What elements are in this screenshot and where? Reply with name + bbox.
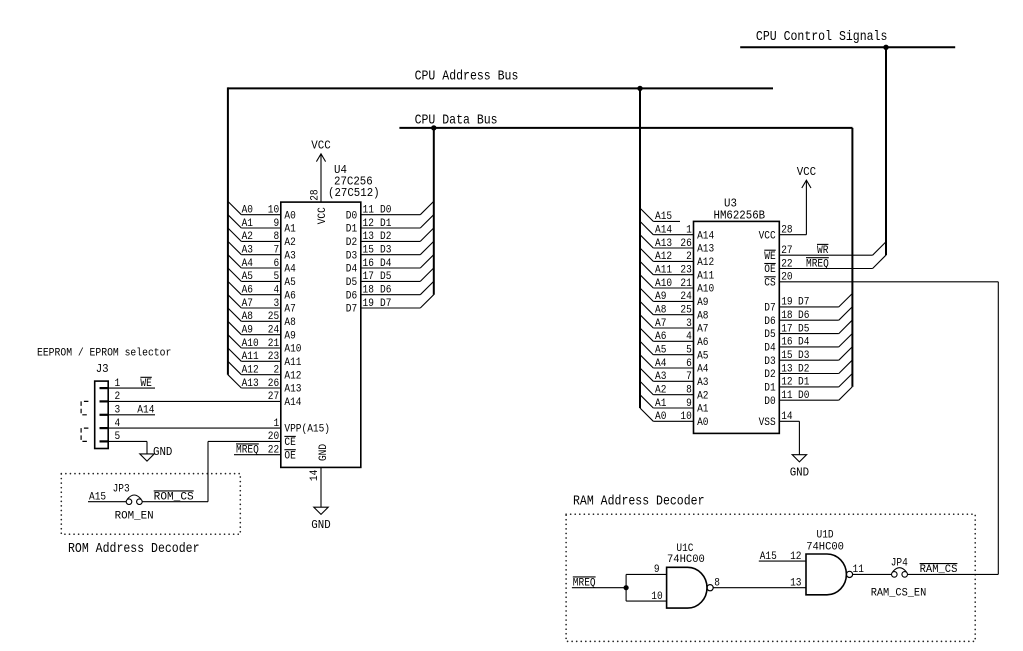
svg-text:VCC: VCC	[759, 230, 776, 242]
svg-text:3: 3	[274, 298, 280, 310]
svg-text:12: 12	[790, 551, 801, 563]
svg-text:A6: A6	[655, 331, 666, 343]
svg-text:A13: A13	[242, 378, 259, 390]
svg-text:D1: D1	[380, 218, 391, 230]
svg-text:22: 22	[268, 445, 279, 457]
wire U3 pin 3 (A7) with bus entry	[640, 315, 709, 336]
wire U3 pin 12 (D1) with bus entry	[764, 374, 852, 395]
wire U4 pin 27 (A14) from J3 pin 2	[108, 391, 301, 409]
svg-text:A7: A7	[655, 318, 666, 330]
svg-text:7: 7	[686, 371, 692, 383]
wire U4 pin 6 (A4) with bus entry	[228, 255, 296, 276]
svg-text:(27C512): (27C512)	[328, 186, 380, 200]
svg-text:74HC00: 74HC00	[806, 542, 844, 554]
svg-text:26: 26	[680, 238, 691, 250]
svg-text:A9: A9	[655, 291, 666, 303]
svg-text:27: 27	[268, 391, 279, 403]
wire U3 pin 26 (A13) with bus entry	[640, 235, 714, 256]
svg-text:A12: A12	[655, 251, 672, 263]
wire U4 pin 3 (A7) with bus entry	[228, 295, 296, 316]
svg-text:J3: J3	[96, 362, 109, 376]
svg-text:A6: A6	[697, 337, 708, 349]
svg-text:A11: A11	[655, 265, 672, 277]
svg-text:4: 4	[115, 418, 121, 430]
svg-text:8: 8	[686, 385, 692, 397]
svg-text:JP3: JP3	[113, 484, 130, 496]
wire J3 pin 1 WE stub	[108, 377, 155, 390]
wire U1C pin 8 output to U1D pin 13	[713, 578, 806, 590]
svg-text:A3: A3	[655, 371, 666, 383]
svg-text:A8: A8	[242, 311, 253, 323]
svg-text:U1D: U1D	[817, 530, 834, 542]
svg-text:D0: D0	[764, 396, 775, 408]
wire U4 pin 7 (A3) with bus entry	[228, 241, 296, 262]
svg-text:A8: A8	[284, 317, 295, 329]
svg-text:A7: A7	[284, 304, 295, 316]
svg-text:10: 10	[680, 411, 691, 423]
wire A15 to U1D pin 12	[759, 551, 806, 563]
svg-text:17: 17	[781, 323, 792, 335]
svg-text:MREQ: MREQ	[573, 578, 596, 590]
node junction on data bus	[431, 125, 436, 130]
wire U3 pin 16 (D4) with bus entry	[764, 334, 852, 355]
svg-text:2: 2	[115, 391, 121, 403]
jumper bracket pins 4-5	[81, 428, 88, 441]
svg-text:24: 24	[680, 291, 691, 303]
svg-text:12: 12	[363, 218, 374, 230]
nand gate U1D 74HC00	[806, 530, 853, 595]
svg-text:A8: A8	[697, 310, 708, 322]
svg-text:VPP(A15): VPP(A15)	[284, 424, 330, 436]
svg-text:21: 21	[268, 338, 279, 350]
svg-text:A9: A9	[242, 325, 253, 337]
svg-text:A10: A10	[697, 284, 714, 296]
svg-text:D7: D7	[798, 297, 809, 309]
wire U3 pin 18 (D6) with bus entry	[764, 307, 852, 328]
svg-text:A4: A4	[655, 358, 666, 370]
svg-text:A5: A5	[697, 350, 708, 362]
J3 pin 1 stub	[100, 378, 121, 390]
svg-text:6: 6	[686, 358, 692, 370]
svg-text:VSS: VSS	[759, 417, 776, 429]
wire A15 to JP3	[88, 492, 126, 504]
svg-text:12: 12	[781, 377, 792, 389]
svg-text:D6: D6	[380, 285, 391, 297]
wire U3 pin 15 (D3) with bus entry	[764, 347, 852, 368]
svg-text:8: 8	[274, 231, 280, 243]
svg-text:74HC00: 74HC00	[667, 554, 705, 566]
wire MREQ into decoder	[572, 577, 626, 590]
wire junction vertical	[625, 574, 627, 601]
svg-text:ROM Address Decoder: ROM Address Decoder	[68, 542, 200, 557]
svg-text:14: 14	[781, 411, 792, 423]
svg-text:3: 3	[686, 318, 692, 330]
wire U4 pin 16 (D4) with bus entry	[346, 255, 434, 276]
svg-text:GND: GND	[318, 444, 330, 461]
svg-text:A2: A2	[697, 390, 708, 402]
svg-text:RAM Address Decoder: RAM Address Decoder	[573, 494, 705, 509]
svg-text:28: 28	[781, 225, 792, 237]
svg-text:A15: A15	[89, 492, 106, 504]
svg-text:A6: A6	[284, 290, 295, 302]
svg-text:27: 27	[781, 245, 792, 257]
wire U3 pin 23 (A11) with bus entry	[640, 261, 714, 282]
svg-text:A10: A10	[655, 278, 672, 290]
svg-text:D6: D6	[764, 316, 775, 328]
svg-text:D1: D1	[764, 383, 775, 395]
svg-text:26: 26	[268, 378, 279, 390]
svg-text:D0: D0	[346, 210, 357, 222]
svg-text:JP4: JP4	[891, 558, 908, 570]
svg-text:CS: CS	[764, 277, 775, 289]
svg-text:5: 5	[686, 345, 692, 357]
wire data bus left vertical	[433, 128, 435, 295]
ROM Address Decoder boundary box	[61, 474, 240, 535]
svg-text:9: 9	[654, 564, 660, 576]
svg-text:17: 17	[363, 271, 374, 283]
svg-text:1: 1	[274, 418, 280, 430]
wire U1C pin 10 input	[626, 591, 667, 603]
jumper bracket pins 2-3	[81, 401, 88, 414]
solder jumper JP3	[113, 484, 154, 523]
svg-text:A15: A15	[760, 551, 777, 563]
wire U4 pin 12 (D1) with bus entry	[346, 215, 434, 236]
svg-text:A5: A5	[284, 277, 295, 289]
svg-text:A2: A2	[655, 385, 666, 397]
wire U4 pin 26 (A13) with bus entry	[228, 375, 302, 396]
svg-text:A0: A0	[284, 210, 295, 222]
svg-text:A1: A1	[284, 224, 295, 236]
svg-text:A6: A6	[242, 285, 253, 297]
label CPU Address Bus	[415, 70, 519, 85]
svg-text:19: 19	[781, 297, 792, 309]
wire JP4 to RAM_CS / U3 CS	[908, 564, 999, 577]
svg-text:ROM_EN: ROM_EN	[115, 511, 154, 523]
node junction on control bus	[883, 45, 888, 50]
svg-text:ROM_CS: ROM_CS	[154, 492, 194, 504]
J3 pin 3 stub	[100, 405, 121, 417]
svg-text:GND: GND	[153, 445, 172, 459]
wire CPU Data Bus horizontal	[399, 127, 852, 129]
wire J3 pin 5 to GND	[108, 441, 147, 454]
label EEPROM / EPROM selector	[37, 347, 171, 359]
svg-text:A5: A5	[242, 271, 253, 283]
svg-text:11: 11	[363, 205, 374, 217]
svg-text:18: 18	[363, 285, 374, 297]
wire U4 pin 18 (D6) with bus entry	[346, 281, 434, 302]
svg-text:A3: A3	[242, 245, 253, 257]
wire U4 pin 20 (CE) from ROM_CS	[208, 431, 296, 449]
svg-text:D2: D2	[380, 231, 391, 243]
svg-text:A9: A9	[284, 330, 295, 342]
svg-text:25: 25	[680, 305, 691, 317]
label ROM Address Decoder	[68, 542, 200, 557]
J3 pin 2 stub	[100, 391, 121, 403]
svg-text:D7: D7	[380, 298, 391, 310]
svg-text:21: 21	[680, 278, 691, 290]
svg-text:23: 23	[680, 265, 691, 277]
svg-text:VCC: VCC	[797, 165, 816, 179]
svg-text:14: 14	[309, 470, 321, 481]
power GND at U3 pin 14	[790, 455, 809, 480]
svg-text:D2: D2	[346, 237, 357, 249]
wire U3 pin 25 (A8) with bus entry	[640, 301, 709, 322]
wire U4 pin 8 (A2) with bus entry	[228, 228, 296, 249]
svg-text:A0: A0	[655, 411, 666, 423]
power VCC at U3 pin 28	[797, 165, 816, 188]
svg-text:11: 11	[853, 564, 864, 576]
J3 pin 5 stub	[100, 431, 121, 443]
svg-text:A12: A12	[697, 257, 714, 269]
wire U3 pin 4 (A6) with bus entry	[640, 328, 709, 349]
svg-text:MREQ: MREQ	[806, 258, 829, 270]
wire U4 pin 17 (D5) with bus entry	[346, 268, 434, 289]
svg-text:23: 23	[268, 351, 279, 363]
svg-text:A7: A7	[697, 324, 708, 336]
svg-text:A14: A14	[137, 405, 154, 417]
svg-text:6: 6	[274, 258, 280, 270]
wire CPU Control Signals bus	[740, 46, 955, 48]
svg-text:WE: WE	[764, 251, 775, 263]
svg-text:16: 16	[781, 337, 792, 349]
svg-text:28: 28	[309, 189, 321, 200]
svg-text:D4: D4	[380, 258, 391, 270]
svg-text:A13: A13	[655, 238, 672, 250]
svg-text:A1: A1	[655, 398, 666, 410]
wire U3 pin 11 (D0) with bus entry	[764, 387, 852, 408]
svg-text:D7: D7	[764, 303, 775, 315]
svg-text:D6: D6	[798, 310, 809, 322]
wire CPU Address Bus horizontal	[228, 87, 773, 89]
svg-text:D3: D3	[764, 356, 775, 368]
wire U4 pin 10 (A0) with bus entry	[228, 201, 296, 222]
svg-text:11: 11	[781, 390, 792, 402]
svg-text:A11: A11	[697, 270, 714, 282]
svg-text:D5: D5	[764, 329, 775, 341]
svg-text:2: 2	[686, 251, 692, 263]
svg-text:D4: D4	[346, 264, 357, 276]
wire U3 pin 7 (A3) with bus entry	[640, 368, 709, 389]
svg-text:A14: A14	[655, 225, 672, 237]
wire U3 pin 24 (A9) with bus entry	[640, 288, 709, 309]
svg-text:A3: A3	[697, 377, 708, 389]
power VCC at U4 pin 28	[309, 138, 330, 224]
svg-text:7: 7	[274, 245, 280, 257]
svg-text:A5: A5	[655, 345, 666, 357]
connector J3	[95, 362, 109, 449]
solder jumper JP4	[871, 558, 927, 600]
wire U1D pin 11 output to JP4	[853, 564, 892, 576]
wire address bus right vertical	[639, 88, 641, 408]
svg-text:A3: A3	[284, 250, 295, 262]
svg-text:A4: A4	[697, 364, 708, 376]
svg-text:24: 24	[268, 325, 279, 337]
svg-text:16: 16	[363, 258, 374, 270]
svg-text:D5: D5	[346, 277, 357, 289]
wire U3 pin 27 (WE) to control bus	[764, 242, 886, 263]
svg-text:A9: A9	[697, 297, 708, 309]
wire U3 pin 8 (A2) with bus entry	[640, 381, 709, 402]
svg-text:D3: D3	[380, 245, 391, 257]
svg-text:22: 22	[781, 258, 792, 270]
svg-text:CPU Control Signals: CPU Control Signals	[756, 30, 888, 45]
svg-text:RAM_CS_EN: RAM_CS_EN	[871, 588, 927, 600]
svg-text:WR: WR	[817, 245, 829, 257]
wire U4 pin 13 (D2) with bus entry	[346, 228, 434, 249]
wire control bus vertical drop	[885, 47, 887, 255]
power GND at U4 pin 14	[309, 444, 331, 532]
node junction at U1C inputs	[624, 585, 629, 590]
wire U4 pin 9 (A1) with bus entry	[228, 215, 296, 236]
svg-text:GND: GND	[311, 518, 330, 532]
wire U3 pin 21 (A10) with bus entry	[640, 275, 714, 296]
svg-text:A15: A15	[655, 211, 672, 223]
svg-text:WE: WE	[140, 378, 151, 390]
svg-text:1: 1	[686, 225, 692, 237]
svg-text:D3: D3	[798, 350, 809, 362]
svg-text:A10: A10	[242, 338, 259, 350]
wire U4 pin 11 (D0) with bus entry	[346, 201, 434, 222]
wire U3 pin 2 (A12) with bus entry	[640, 248, 714, 269]
svg-text:A10: A10	[284, 344, 301, 356]
svg-text:10: 10	[268, 205, 279, 217]
RAM U3 body	[694, 197, 780, 434]
svg-text:A11: A11	[284, 357, 301, 369]
svg-text:9: 9	[686, 398, 692, 410]
wire U4 pin 25 (A8) with bus entry	[228, 308, 296, 329]
svg-text:D4: D4	[764, 343, 775, 355]
svg-text:A12: A12	[284, 370, 301, 382]
wire U3 pin 22 (OE) to control bus	[764, 255, 886, 276]
wire address bus left vertical	[227, 87, 229, 374]
svg-text:15: 15	[781, 350, 792, 362]
wire U4 pin 21 (A10) with bus entry	[228, 335, 302, 356]
svg-text:D7: D7	[346, 304, 357, 316]
svg-text:HM62256B: HM62256B	[714, 208, 766, 222]
svg-text:A0: A0	[697, 417, 708, 429]
wire U4 pin 5 (A5) with bus entry	[228, 268, 296, 289]
svg-text:D6: D6	[346, 290, 357, 302]
wire U4 pin 1 (VPP) from J3 pin 4	[108, 418, 330, 436]
svg-text:CPU Address Bus: CPU Address Bus	[415, 70, 519, 85]
svg-text:19: 19	[363, 298, 374, 310]
svg-text:D0: D0	[380, 205, 391, 217]
svg-text:13: 13	[363, 231, 374, 243]
svg-text:D2: D2	[764, 369, 775, 381]
J3 pin 4 stub	[100, 418, 121, 430]
node junction on address bus	[637, 86, 642, 91]
svg-text:A1: A1	[697, 404, 708, 416]
label RAM Address Decoder	[573, 494, 705, 509]
EPROM U4 body	[281, 163, 380, 468]
svg-text:A0: A0	[242, 205, 253, 217]
svg-text:2: 2	[274, 365, 280, 377]
wire U4 pin 15 (D3) with bus entry	[346, 241, 434, 262]
label CPU Data Bus	[415, 114, 498, 129]
svg-text:A7: A7	[242, 298, 253, 310]
svg-text:D3: D3	[346, 250, 357, 262]
svg-text:MREQ: MREQ	[236, 445, 259, 457]
svg-text:VCC: VCC	[317, 207, 329, 224]
wire U3 pin 28 (VCC)	[759, 181, 807, 242]
svg-text:A4: A4	[242, 258, 253, 270]
wire U3 pin 1 (A14) with bus entry	[640, 221, 714, 242]
wire U3 pin 13 (D2) with bus entry	[764, 360, 852, 381]
svg-text:D0: D0	[798, 390, 809, 402]
power GND at J3 pin 5	[140, 445, 173, 461]
svg-text:A11: A11	[242, 351, 259, 363]
wire U3 pin 20 (CS) from RAM_CS	[764, 272, 998, 575]
svg-text:10: 10	[651, 591, 662, 603]
svg-text:5: 5	[274, 271, 280, 283]
wire U3 A15 stub with bus entry	[640, 208, 680, 223]
svg-text:25: 25	[268, 311, 279, 323]
svg-text:A13: A13	[284, 384, 301, 396]
wire U3 pin 9 (A1) with bus entry	[640, 395, 709, 416]
wire U4 pin 4 (A6) with bus entry	[228, 281, 296, 302]
svg-text:A14: A14	[284, 397, 301, 409]
svg-text:CPU Data Bus: CPU Data Bus	[415, 114, 498, 129]
wire U1C pin 9 input	[626, 564, 667, 576]
wire JP3 to ROM_CS / U4 CE	[142, 441, 208, 503]
label CPU Control Signals	[756, 30, 888, 45]
svg-text:A13: A13	[697, 244, 714, 256]
svg-text:4: 4	[686, 331, 692, 343]
svg-text:13: 13	[790, 578, 801, 590]
svg-text:D4: D4	[798, 337, 809, 349]
svg-text:GND: GND	[790, 466, 809, 480]
svg-text:D1: D1	[798, 377, 809, 389]
svg-text:D1: D1	[346, 224, 357, 236]
svg-text:20: 20	[268, 431, 279, 443]
svg-text:A12: A12	[242, 365, 259, 377]
svg-text:VCC: VCC	[311, 138, 330, 152]
svg-text:20: 20	[781, 272, 792, 284]
svg-text:OE: OE	[284, 450, 295, 462]
svg-text:A8: A8	[655, 305, 666, 317]
wire U4 pin 24 (A9) with bus entry	[228, 321, 296, 342]
svg-text:EEPROM / EPROM selector: EEPROM / EPROM selector	[37, 347, 171, 359]
svg-text:4: 4	[274, 285, 280, 297]
nand gate U1C 74HC00	[667, 543, 714, 608]
svg-text:A2: A2	[284, 237, 295, 249]
svg-text:18: 18	[781, 310, 792, 322]
svg-text:A14: A14	[697, 230, 714, 242]
wire U3 pin 17 (D5) with bus entry	[764, 320, 852, 341]
wire U3 pin 6 (A4) with bus entry	[640, 355, 709, 376]
svg-text:13: 13	[781, 363, 792, 375]
svg-text:OE: OE	[764, 264, 775, 276]
wire U3 pin 5 (A5) with bus entry	[640, 341, 709, 362]
svg-text:D5: D5	[798, 323, 809, 335]
wire U3 pin 19 (D7) with bus entry	[764, 294, 852, 315]
wire U4 pin 22 (OE) MREQ stub	[234, 444, 296, 462]
svg-text:D2: D2	[798, 363, 809, 375]
svg-text:9: 9	[274, 218, 280, 230]
svg-text:CE: CE	[284, 437, 295, 449]
svg-text:A4: A4	[284, 264, 295, 276]
svg-text:15: 15	[363, 245, 374, 257]
svg-text:A1: A1	[242, 218, 253, 230]
svg-text:RAM_CS: RAM_CS	[920, 564, 958, 576]
svg-text:8: 8	[714, 578, 720, 590]
wire U3 pin 10 (A0) with bus entry	[640, 408, 709, 429]
wire data bus right vertical	[851, 128, 853, 387]
RAM Address Decoder boundary box	[566, 514, 975, 641]
wire U4 pin 23 (A11) with bus entry	[228, 348, 302, 369]
wire J3 pin 3 A14 stub	[108, 405, 155, 417]
svg-text:D5: D5	[380, 271, 391, 283]
